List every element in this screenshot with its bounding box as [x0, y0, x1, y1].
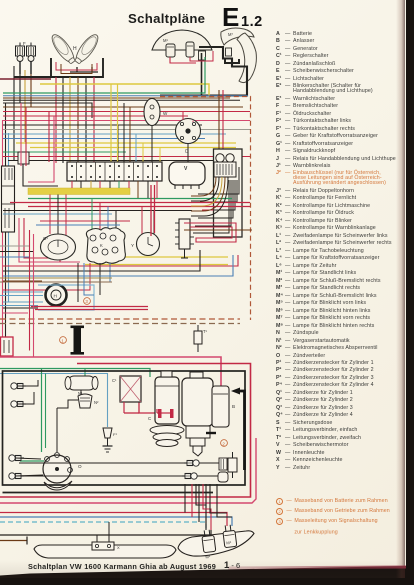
wire harness band h8 teal	[3, 133, 226, 135]
relay J (Handabblendung und Lichthupe) outer box	[214, 149, 243, 237]
right engine plug P2	[184, 460, 199, 466]
svg-text:F¹: F¹	[113, 432, 117, 437]
wire coil HT to distributor	[80, 390, 82, 394]
connector block T2 near wiper	[214, 162, 236, 177]
headlight L1 left reflector	[48, 32, 77, 66]
wire plug runs across box	[19, 462, 226, 464]
wire harness band h13 red3	[3, 156, 250, 158]
wire green trunk	[0, 369, 150, 378]
wire coil to distributor green	[20, 460, 44, 462]
wire red loop under headlights	[56, 62, 97, 70]
svg-text:M⁴: M⁴	[205, 554, 211, 560]
svg-text:N²: N²	[94, 400, 99, 405]
svg-text:X: X	[117, 545, 120, 550]
svg-text:M¹: M¹	[163, 38, 168, 43]
right engine plug Q2	[182, 473, 197, 479]
wiper motor V	[169, 162, 205, 189]
wire blue loop around horn	[38, 285, 94, 310]
node 2 callout	[221, 440, 228, 447]
wire battery cable with arrow	[238, 391, 245, 470]
wire harness band h2 brown	[3, 106, 243, 108]
wire harness band h14 black2	[8, 160, 238, 162]
wire red C1 bottom run	[123, 402, 125, 413]
switch E3 warnlicht	[18, 152, 58, 186]
right connector bells	[218, 458, 228, 482]
lamp M8 blinklicht hinten	[222, 524, 237, 547]
wire switch drops red2	[48, 112, 50, 163]
ground strap 1 (battery to frame)	[71, 326, 85, 355]
wire harness band h9 blue	[3, 138, 205, 140]
wire harness band h4 red2	[3, 115, 188, 117]
svg-text:M⁷: M⁷	[228, 32, 233, 37]
right engine connectors T2	[228, 452, 237, 478]
wire green run below fuses	[28, 198, 232, 200]
wire mid drops black pair	[117, 125, 119, 162]
wire harness band h1 black	[3, 103, 92, 118]
front fender turn signal M7	[221, 28, 254, 45]
ignition lock D	[176, 119, 201, 154]
wire right verticals brown	[218, 90, 220, 149]
node 3 ground callout	[84, 298, 91, 305]
wire D feeds	[182, 112, 184, 121]
svg-text:H: H	[54, 294, 57, 299]
lamp M5 blinker front	[199, 48, 232, 60]
svg-text:K: K	[100, 243, 103, 248]
connector T1	[194, 325, 208, 352]
wire red drop from cluster	[3, 263, 90, 290]
svg-text:T¹: T¹	[203, 329, 208, 334]
wire relay exits heading left	[198, 193, 214, 195]
wire distributor to plugs	[15, 458, 41, 459]
spark plug Q4	[11, 401, 26, 407]
lamp M1 standlicht	[163, 38, 175, 57]
svg-text:B: B	[232, 404, 235, 409]
wire left-edge teal vertical	[8, 133, 10, 302]
switch E1 lichtschalter	[2, 166, 15, 232]
wire red pair mid verticals	[29, 230, 31, 351]
wire brown loop under headlights	[61, 64, 92, 74]
wire red vertical pair below V	[150, 185, 152, 236]
headlight L2 right reflector	[72, 32, 101, 66]
fuel sender G box	[1, 337, 14, 356]
svg-text:Y: Y	[131, 243, 134, 248]
oil pressure switch F1	[103, 428, 118, 452]
connector strip T	[175, 219, 194, 258]
wire yellow verticals to fusebox	[110, 84, 112, 162]
svg-text:C¹: C¹	[112, 378, 117, 383]
fuel gauge G1	[41, 234, 76, 260]
wire bracket to horns black	[14, 76, 51, 78]
relay J block circles	[216, 154, 234, 162]
interior light W	[144, 99, 168, 126]
wire green drop to N1	[84, 369, 86, 377]
wire pink weave gauges	[19, 218, 80, 262]
wire gauge feeds	[49, 195, 51, 235]
horn 1 (Doppeltonhorn)	[16, 43, 25, 75]
wire connector fan to T strip	[191, 177, 216, 196]
wire tail blue	[0, 517, 232, 526]
wire red coil loops	[184, 223, 236, 242]
wire bundle to tail lamps	[196, 484, 206, 530]
wire fusebox drops	[71, 181, 73, 188]
wire lower-left band brown	[3, 280, 42, 282]
engine compartment box	[3, 371, 246, 485]
starter B	[182, 372, 235, 456]
rear fender with tail lamps	[178, 531, 254, 556]
wire lower-left band blue	[3, 255, 233, 276]
body divider dashed line upper	[0, 318, 240, 320]
wire W drop	[151, 126, 153, 163]
wire harness band h12 green	[3, 151, 126, 153]
clock Y	[131, 233, 160, 256]
horn 2 (Doppeltonhorn)	[23, 41, 36, 74]
fuse box S	[67, 162, 162, 181]
wire green top run	[3, 57, 205, 93]
wire harness band h6 black	[3, 124, 202, 126]
wire switch drops red	[25, 107, 27, 166]
svg-text:H: H	[73, 46, 77, 52]
wire black staircase to fender	[160, 47, 247, 96]
horn H	[46, 285, 67, 306]
lamp M4 schluss-bremslicht	[201, 529, 216, 559]
ground strap 2 gearbox	[206, 432, 216, 434]
wire horn feeds	[3, 291, 43, 293]
wire red top connector	[170, 57, 196, 63]
wire black run	[3, 210, 192, 212]
wire red run r2	[28, 206, 250, 208]
svg-text:O: O	[78, 464, 82, 469]
wire yellow top run	[40, 84, 209, 96]
wire black bottom rail	[3, 492, 214, 494]
wire lower-left band black	[3, 250, 200, 271]
svg-text:M⁶: M⁶	[226, 540, 232, 546]
wire yellow bus bar	[28, 188, 130, 195]
wire black top run	[3, 99, 240, 101]
spark plug Q3	[11, 383, 26, 389]
wire brown gauge run	[184, 229, 252, 231]
wire green drop left pair	[41, 369, 43, 453]
wire cluster drops to horn area	[77, 263, 79, 302]
wire lower-left band red	[3, 255, 238, 266]
wire red border loop	[0, 364, 251, 498]
wire olive runs	[0, 277, 112, 279]
wire left extra runs	[0, 245, 30, 247]
svg-text:3: 3	[85, 299, 88, 304]
distributor O	[43, 453, 82, 490]
spark plug Q2	[9, 473, 24, 479]
wire red run r1	[10, 202, 250, 204]
wire plugs top-left	[17, 380, 38, 386]
regulator C1	[112, 376, 141, 402]
generator C	[148, 371, 184, 447]
carb automatic N1	[78, 394, 99, 408]
instrument cluster K lamps	[86, 228, 125, 264]
wire switch drops pink2	[28, 116, 54, 182]
headlamp unit right (L2 dome with M1 M3 bulbs)	[152, 30, 212, 50]
wire left-edge black vertical	[5, 103, 7, 357]
wire harness band h11 yellow2	[30, 147, 236, 149]
wire pink trunk to solenoid	[0, 357, 221, 386]
wire tail cyan dashed	[0, 522, 206, 530]
wire engine drops to tail	[184, 484, 186, 513]
wire red C1 to generator	[139, 402, 157, 413]
wire tail red	[0, 513, 227, 527]
wire yellow mid runs	[120, 256, 228, 258]
wire teal run	[3, 213, 112, 215]
turn signal bracket	[225, 59, 239, 63]
svg-text:G¹: G¹	[43, 236, 48, 241]
wire pink tail rail	[0, 438, 256, 503]
svg-text:1: 1	[61, 338, 64, 343]
wire red pair below horn	[31, 306, 148, 308]
wire left-edge pink vertical	[2, 120, 4, 351]
wire inner H-pipe	[70, 67, 98, 72]
wire blue top run	[3, 95, 248, 97]
wire drops to license light	[96, 535, 98, 544]
wire tail black	[0, 530, 211, 535]
lamp bulb second	[186, 42, 194, 57]
wire darkred left run	[0, 78, 51, 80]
headlight mounting bracket	[51, 58, 103, 77]
wire harness band h3 red	[3, 111, 250, 113]
svg-text:C: C	[148, 416, 151, 421]
wire brown top run	[3, 97, 230, 99]
wire switch drops pink	[20, 103, 22, 166]
spark plug Q1	[9, 455, 24, 461]
body outline dashed corner	[160, 97, 251, 321]
rear valance with license plate light X	[34, 542, 176, 558]
wire right verticals red	[222, 90, 224, 149]
wire horns to harness	[19, 74, 21, 103]
wire teal trunk	[0, 374, 108, 428]
node 1 callout	[60, 337, 67, 344]
svg-text:F: F	[23, 41, 26, 46]
svg-text:W: W	[163, 111, 168, 116]
wire relay nested L wires	[214, 180, 232, 226]
body divider dashed line lower	[0, 323, 240, 325]
svg-text:2: 2	[222, 441, 225, 446]
ignition coil N	[65, 376, 98, 396]
wire harness band h5 pink	[3, 120, 250, 122]
wire tail brown with terminal	[0, 537, 27, 545]
wire harness band h7 gray	[3, 129, 250, 131]
wire harness band h10 yellow	[16, 142, 236, 144]
wire headlight drops to harness	[55, 77, 57, 163]
